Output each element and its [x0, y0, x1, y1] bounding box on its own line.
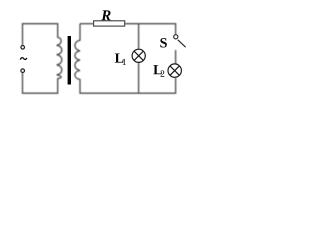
svg-text:S: S [160, 36, 168, 51]
svg-text:R: R [100, 8, 111, 24]
svg-text:2: 2 [160, 70, 165, 80]
svg-text:1: 1 [122, 58, 127, 68]
